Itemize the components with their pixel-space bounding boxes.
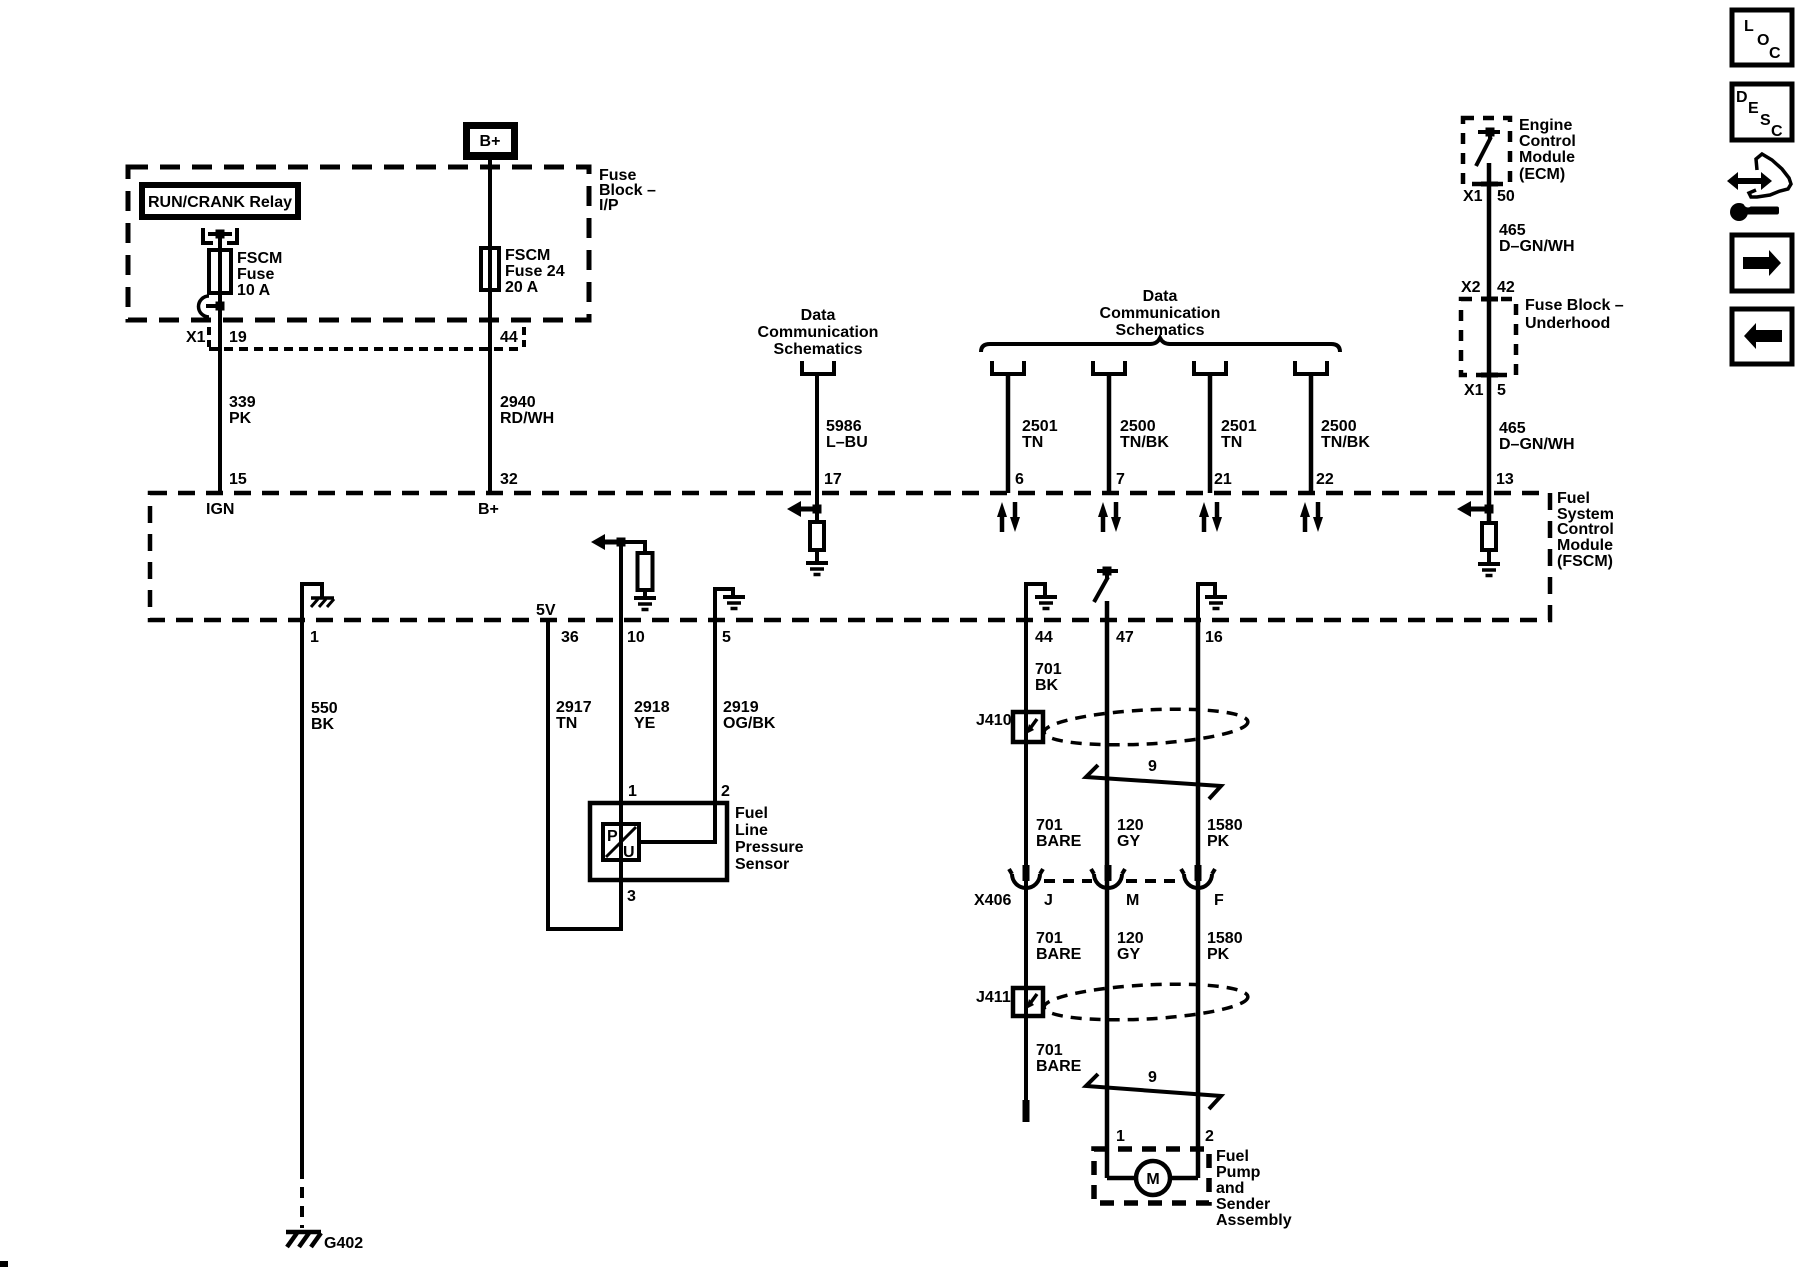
fuel line pressure sensor box [590, 803, 727, 880]
pin 44 [1035, 629, 1053, 646]
svg-text:E: E [1748, 100, 1759, 117]
svg-text:9: 9 [1148, 758, 1157, 775]
data comm schematics label left [758, 307, 879, 358]
wire sensor internal [621, 842, 717, 880]
svg-text:B+: B+ [478, 501, 499, 518]
svg-text:BARE: BARE [1036, 833, 1082, 850]
svg-text:X1: X1 [1464, 382, 1484, 399]
ECM box [1463, 118, 1510, 184]
P/U transducer symbol [603, 824, 639, 861]
svg-text:U: U [623, 844, 635, 861]
shield ellipse J411 [1043, 980, 1248, 1025]
svg-text:B+: B+ [480, 133, 501, 150]
svg-text:TN/BK: TN/BK [1120, 434, 1169, 451]
svg-text:10 A: 10 A [237, 282, 271, 299]
svg-text:X1: X1 [186, 329, 206, 346]
label X1 [186, 329, 206, 346]
svg-text:YE: YE [634, 715, 656, 732]
svg-text:1580: 1580 [1207, 930, 1243, 947]
label X2 pin 42 [1461, 279, 1515, 296]
svg-text:PK: PK [229, 410, 252, 427]
svg-text:FSCM: FSCM [505, 247, 550, 264]
svg-text:PK: PK [1207, 833, 1230, 850]
svg-text:(FSCM): (FSCM) [1557, 553, 1613, 570]
wire 2919 OG/BK [715, 620, 776, 844]
svg-text:C: C [1769, 45, 1781, 62]
svg-text:2940: 2940 [500, 394, 536, 411]
arrow left pin 13 [1457, 501, 1489, 517]
motor M [1107, 1161, 1198, 1195]
connector terminal hook X1 [199, 296, 221, 317]
svg-text:Fuel: Fuel [1557, 490, 1590, 507]
svg-text:Data: Data [1143, 288, 1178, 305]
wire 47 column [1105, 601, 1110, 1178]
svg-text:Sender: Sender [1216, 1196, 1270, 1213]
resistor pin 10 branch [621, 542, 653, 598]
wire fuse to FSCM pin 15 [218, 252, 222, 493]
brace [981, 338, 1340, 352]
svg-text:701: 701 [1036, 1042, 1063, 1059]
pin 5 [722, 629, 731, 646]
off-page connector 22 [1295, 361, 1327, 374]
pin 44 fuse block [500, 329, 518, 346]
svg-text:Fuel: Fuel [735, 805, 768, 822]
pin 10 [627, 629, 645, 646]
wire 701 BARE end label [1036, 1042, 1082, 1075]
svg-text:TN: TN [556, 715, 577, 732]
svg-text:5V: 5V [536, 602, 556, 619]
wire 44 column [1024, 620, 1028, 1102]
connector X406 terminals [1009, 865, 1215, 888]
tick underhood top [1481, 297, 1498, 302]
svg-text:C: C [1771, 123, 1783, 140]
wire 16 column [1196, 620, 1201, 1178]
svg-text:BARE: BARE [1036, 946, 1082, 963]
junction pin 13 [1485, 505, 1494, 514]
svg-text:1: 1 [310, 629, 319, 646]
icon forward arrow [1732, 235, 1792, 291]
pin 22 [1316, 471, 1334, 488]
svg-text:2500: 2500 [1321, 418, 1357, 435]
svg-text:42: 42 [1497, 279, 1515, 296]
svg-text:20 A: 20 A [505, 279, 539, 296]
svg-text:7: 7 [1116, 471, 1125, 488]
svg-text:Sensor: Sensor [735, 856, 789, 873]
label X1 pin 5 [1464, 382, 1506, 399]
wire 2500 TN/BK pin 22 [1311, 374, 1370, 493]
sensor pin 3 [627, 888, 636, 905]
bidirectional arrows pin 7 [1098, 502, 1121, 532]
switch driver pin 47 [1094, 567, 1118, 603]
ground G402 [286, 1232, 363, 1252]
svg-text:550: 550 [311, 700, 338, 717]
pin 47 [1116, 629, 1134, 646]
svg-text:Module: Module [1519, 149, 1575, 166]
pin J [1044, 892, 1053, 909]
svg-text:120: 120 [1117, 817, 1144, 834]
wire 2918 YE pin 10 [621, 542, 670, 824]
fuel pump label [1216, 1148, 1292, 1229]
ground pin 10 branch [634, 598, 656, 610]
svg-text:M: M [1146, 1171, 1159, 1188]
bidirectional arrows pin 6 [997, 502, 1020, 532]
svg-text:O: O [1757, 32, 1769, 49]
pin 15 [229, 471, 247, 488]
shield ellipse J410 [1043, 705, 1248, 750]
svg-text:L: L [1744, 18, 1754, 35]
wire 701 BK label [1035, 661, 1062, 694]
svg-text:M: M [1126, 892, 1139, 909]
svg-text:465: 465 [1499, 420, 1526, 437]
svg-text:X1: X1 [1463, 188, 1483, 205]
bidirectional arrows pin 22 [1300, 502, 1323, 532]
off-page connector left [802, 361, 834, 374]
power label B+ [463, 122, 518, 160]
svg-text:44: 44 [500, 329, 518, 346]
svg-text:10: 10 [627, 629, 645, 646]
svg-text:TN: TN [1022, 434, 1043, 451]
svg-text:2501: 2501 [1022, 418, 1058, 435]
chassis ground pin 1 [311, 598, 334, 607]
ground pin 17 [806, 563, 828, 575]
svg-text:2: 2 [721, 783, 730, 800]
wire labels row 701 BARE 120 GY 1580 PK upper [1036, 817, 1243, 850]
splice J410 mark [1026, 719, 1037, 734]
wire 465 D-GN/WH upper label [1499, 222, 1575, 255]
svg-text:465: 465 [1499, 222, 1526, 239]
svg-text:Underhood: Underhood [1525, 315, 1610, 332]
fuel pump box [1094, 1149, 1209, 1203]
svg-text:1580: 1580 [1207, 817, 1243, 834]
svg-text:Assembly: Assembly [1216, 1212, 1292, 1229]
pin 32 [500, 471, 518, 488]
svg-text:120: 120 [1117, 930, 1144, 947]
svg-text:P: P [607, 828, 618, 845]
ground pin 5 hook [723, 597, 745, 609]
svg-text:Schematics: Schematics [774, 341, 863, 358]
ground pin 13 [1478, 564, 1500, 576]
svg-text:G402: G402 [324, 1235, 363, 1252]
svg-text:RD/WH: RD/WH [500, 410, 554, 427]
svg-text:19: 19 [229, 329, 247, 346]
wire 339 PK label [229, 394, 256, 427]
svg-text:Fuse Block –: Fuse Block – [1525, 297, 1624, 314]
svg-text:13: 13 [1496, 471, 1514, 488]
twisted leads 9 lower [1086, 1069, 1221, 1109]
svg-text:FSCM: FSCM [237, 250, 282, 267]
pin 16 [1205, 629, 1223, 646]
svg-text:GY: GY [1117, 833, 1140, 850]
svg-text:44: 44 [1035, 629, 1053, 646]
twisted leads 9 upper [1086, 758, 1221, 799]
sensor pin 1 [628, 783, 637, 800]
icon back arrow [1732, 309, 1792, 364]
svg-text:and: and [1216, 1180, 1244, 1197]
svg-text:Data: Data [801, 307, 836, 324]
svg-text:D–GN/WH: D–GN/WH [1499, 238, 1575, 255]
node IGN [206, 501, 234, 518]
svg-text:15: 15 [229, 471, 247, 488]
resistor pin 13 [1482, 523, 1496, 550]
tick underhood bottom [1481, 373, 1498, 378]
svg-text:F: F [1214, 892, 1224, 909]
svg-text:OG/BK: OG/BK [723, 715, 776, 732]
node 5V [536, 602, 556, 619]
pump pin 1 [1116, 1128, 1125, 1145]
svg-text:5986: 5986 [826, 418, 862, 435]
pin 36 [561, 629, 579, 646]
svg-text:Line: Line [735, 822, 768, 839]
svg-text:Control: Control [1519, 133, 1576, 150]
wire 2500 TN/BK pin 7 [1109, 374, 1169, 493]
svg-text:Communication: Communication [1100, 305, 1221, 322]
pin 7 [1116, 471, 1125, 488]
fuse block I/P label [599, 167, 656, 214]
wire 5986 L-BU [817, 374, 868, 522]
off-page connector 7 [1093, 361, 1125, 374]
svg-text:BK: BK [311, 716, 335, 733]
fuel line pressure sensor label [735, 805, 804, 873]
svg-text:Pressure: Pressure [735, 839, 804, 856]
svg-text:17: 17 [824, 471, 842, 488]
svg-text:J410: J410 [976, 712, 1012, 729]
wire 465 D-GN/WH lower label [1499, 420, 1575, 453]
splice J410 [976, 712, 1043, 742]
svg-text:Pump: Pump [1216, 1164, 1261, 1181]
fuse block underhood label [1525, 297, 1624, 332]
wire pin 16 hook [1196, 582, 1217, 620]
svg-text:16: 16 [1205, 629, 1223, 646]
FSCM module box [150, 493, 1550, 620]
svg-text:2500: 2500 [1120, 418, 1156, 435]
svg-text:1: 1 [628, 783, 637, 800]
svg-text:Communication: Communication [758, 324, 879, 341]
pump pin 2 [1205, 1128, 1214, 1145]
relay RUN/CRANK label [139, 182, 301, 220]
svg-text:PK: PK [1207, 946, 1230, 963]
wire 550 BK [302, 620, 338, 1228]
svg-text:2: 2 [1205, 1128, 1214, 1145]
splice J411 mark [1026, 994, 1037, 1009]
wire 2501 TN pin 21 [1210, 374, 1257, 493]
arrow left pin 10 [591, 534, 621, 550]
fuse block I/P box [128, 167, 589, 320]
svg-text:32: 32 [500, 471, 518, 488]
svg-text:21: 21 [1214, 471, 1232, 488]
wire pin 1 hook [300, 582, 324, 620]
pin 19 [229, 329, 247, 346]
ground pin 16 hook [1205, 597, 1227, 609]
svg-text:J411: J411 [976, 989, 1011, 1006]
tick ECM bottom [1481, 182, 1498, 187]
pin 21 [1214, 471, 1232, 488]
page mark bottom left [0, 1261, 8, 1267]
resistor pin 17 [810, 522, 824, 550]
svg-text:339: 339 [229, 394, 256, 411]
splice J411 [976, 988, 1043, 1016]
svg-text:D: D [1736, 89, 1748, 106]
svg-text:TN: TN [1221, 434, 1242, 451]
bidirectional arrows pin 21 [1199, 502, 1222, 532]
svg-text:50: 50 [1497, 188, 1515, 205]
label X406 [974, 892, 1011, 909]
svg-text:IGN: IGN [206, 501, 234, 518]
fuse 10A label [237, 250, 282, 299]
svg-text:D–GN/WH: D–GN/WH [1499, 436, 1575, 453]
fuse 24 label [505, 247, 565, 296]
junction at relay output [216, 302, 225, 311]
wire 2501 TN pin 6 [1008, 374, 1058, 493]
arrow left pin 17 [787, 501, 817, 517]
svg-text:Fuel: Fuel [1216, 1148, 1249, 1165]
wire pin 5 hook [713, 587, 735, 620]
svg-text:Fuse: Fuse [237, 266, 274, 283]
svg-text:22: 22 [1316, 471, 1334, 488]
relay contact [203, 228, 237, 243]
wire B+ to fuse 24 [488, 160, 492, 493]
svg-text:2501: 2501 [1221, 418, 1257, 435]
wire pin 44 hook [1024, 582, 1047, 620]
connector X1 bar [209, 327, 524, 349]
svg-text:BARE: BARE [1036, 1058, 1082, 1075]
pin 17 [824, 471, 842, 488]
svg-text:I/P: I/P [599, 197, 619, 214]
svg-text:Fuse 24: Fuse 24 [505, 263, 565, 280]
svg-text:1: 1 [1116, 1128, 1125, 1145]
fuse FSCM Fuse 10 A [209, 250, 231, 293]
svg-text:5: 5 [1497, 382, 1506, 399]
wire 44 end terminal [1023, 1100, 1030, 1122]
off-page connector 6 [992, 361, 1024, 374]
svg-text:47: 47 [1116, 629, 1134, 646]
svg-text:701: 701 [1036, 930, 1063, 947]
svg-text:3: 3 [627, 888, 636, 905]
ECM driver switch [1476, 128, 1500, 167]
fuse block underhood box [1461, 299, 1516, 375]
svg-text:BK: BK [1035, 677, 1059, 694]
svg-text:Engine: Engine [1519, 117, 1572, 134]
wire 2917 TN [546, 620, 623, 931]
svg-text:701: 701 [1036, 817, 1063, 834]
icon LOC [1732, 10, 1792, 65]
icon DESC [1732, 84, 1792, 140]
ECM label [1519, 117, 1576, 183]
off-page connector 21 [1194, 361, 1226, 374]
wire resistor to ground 17 [815, 550, 819, 563]
svg-text:6: 6 [1015, 471, 1024, 488]
pin M [1126, 892, 1139, 909]
wire 2940 RD/WH label [500, 394, 554, 427]
label X1 pin 50 [1463, 188, 1515, 205]
svg-text:5: 5 [722, 629, 731, 646]
pin 1 [310, 629, 319, 646]
junction pin 17 [813, 505, 822, 514]
node B+ [478, 501, 499, 518]
wire labels row 701 BARE 120 GY 1580 PK lower [1036, 930, 1243, 963]
FSCM label [1557, 490, 1614, 570]
fuse FSCM Fuse 24 20 A [481, 248, 499, 290]
wire relay to fuse [218, 234, 222, 252]
svg-text:GY: GY [1117, 946, 1140, 963]
svg-text:701: 701 [1035, 661, 1062, 678]
wire ECM to FSCM pin 13 [1487, 163, 1492, 523]
svg-text:2919: 2919 [723, 699, 759, 716]
sensor pin 2 [721, 783, 730, 800]
svg-text:36: 36 [561, 629, 579, 646]
ground pin 44 hook [1035, 597, 1057, 609]
data comm schematics label right [1100, 288, 1221, 339]
svg-text:X2: X2 [1461, 279, 1481, 296]
svg-text:(ECM): (ECM) [1519, 166, 1565, 183]
svg-text:X406: X406 [974, 892, 1011, 909]
junction pin 10 [617, 538, 626, 547]
svg-text:J: J [1044, 892, 1053, 909]
svg-text:S: S [1760, 112, 1771, 129]
pin 6 [1015, 471, 1024, 488]
svg-text:9: 9 [1148, 1069, 1157, 1086]
svg-text:Control: Control [1557, 521, 1614, 538]
svg-text:2918: 2918 [634, 699, 670, 716]
wire resistor to ground 13 [1487, 550, 1491, 564]
svg-text:TN/BK: TN/BK [1321, 434, 1370, 451]
wire 44 through J411 [1024, 985, 1028, 1020]
svg-text:2917: 2917 [556, 699, 592, 716]
svg-text:L–BU: L–BU [826, 434, 868, 451]
icon connector repair [1727, 154, 1791, 221]
pin F [1214, 892, 1224, 909]
pin numbers top row 13 [1496, 471, 1514, 488]
svg-text:Module: Module [1557, 537, 1613, 554]
svg-text:RUN/CRANK Relay: RUN/CRANK Relay [148, 194, 292, 211]
